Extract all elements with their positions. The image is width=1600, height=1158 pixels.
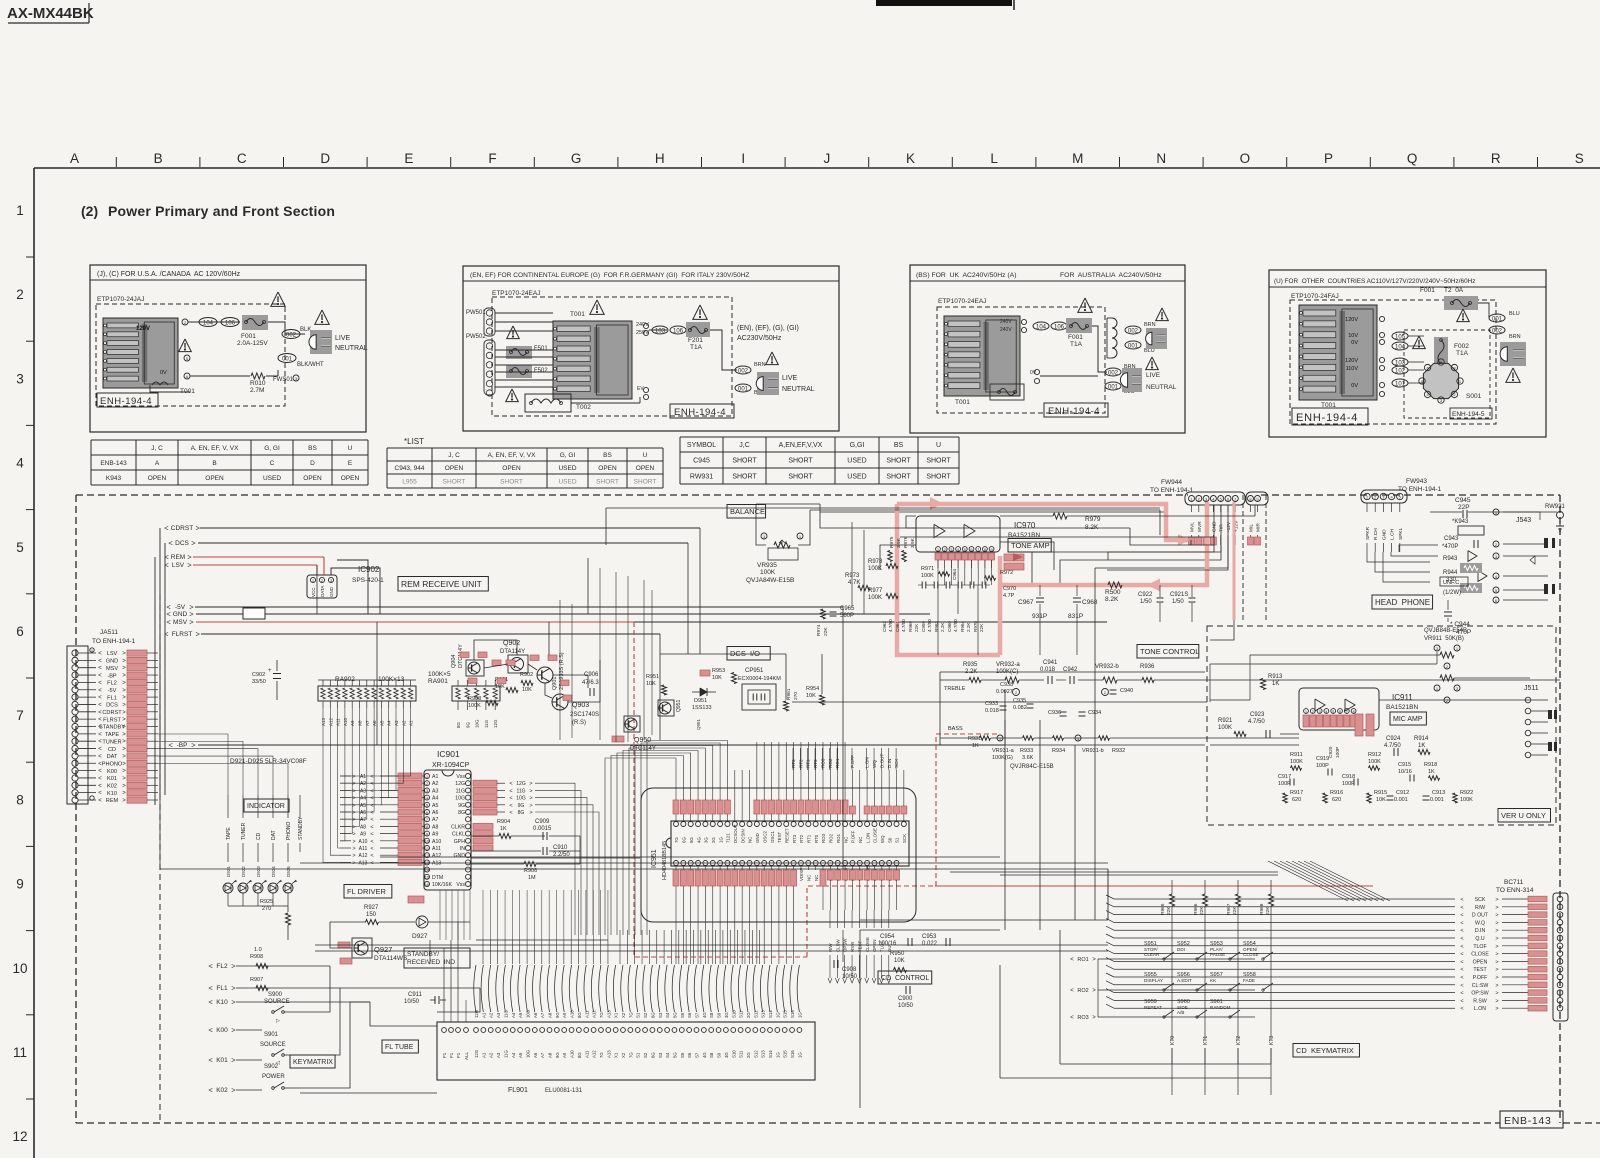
svg-text:S2: S2	[643, 1012, 648, 1018]
svg-text:7G: 7G	[599, 1052, 604, 1058]
IC951 bottom pin OPEN	[872, 861, 877, 866]
svg-text:IN: IN	[460, 846, 465, 852]
svg-text:<: <	[509, 788, 512, 794]
wires RA902 to IC901 staircase	[340, 728, 411, 776]
svg-text:PAUSE: PAUSE	[1210, 952, 1225, 957]
svg-text:<: <	[98, 673, 102, 679]
FL901 tube connector box	[437, 1022, 815, 1080]
svg-text:VER U ONLY: VER U ONLY	[1501, 811, 1546, 820]
svg-text:D.IN: D.IN	[887, 759, 892, 768]
IC951 top pin RO3	[821, 822, 826, 827]
JA511 pin PHONO	[72, 760, 78, 766]
svg-text:A8: A8	[548, 1012, 553, 1018]
FL901 pin S4	[665, 1028, 670, 1033]
wires cd control	[860, 929, 1000, 931]
svg-text:1: 1	[799, 534, 802, 539]
svg-text:0.0027: 0.0027	[996, 689, 1013, 695]
svg-text:AX-MX44BK: AX-MX44BK	[7, 5, 94, 22]
svg-text:R971: R971	[921, 566, 934, 572]
svg-text:D: D	[310, 460, 315, 467]
svg-text:>: >	[352, 839, 355, 845]
IC951 bottom pin S1	[681, 861, 686, 866]
FL901 pin X2	[621, 1028, 626, 1033]
power section box J C for USA/Canada	[90, 265, 366, 432]
svg-text:FL901: FL901	[508, 1087, 528, 1094]
svg-text:IC901: IC901	[437, 749, 460, 759]
svg-text:R975: R975	[889, 536, 895, 548]
wires from keymatrix area to FL901	[437, 988, 480, 1012]
svg-text:831P: 831P	[1068, 613, 1083, 620]
svg-text:R917: R917	[1290, 790, 1303, 796]
IC951 top pin 1G	[718, 822, 723, 827]
connector oval 106 europe	[670, 326, 686, 334]
svg-text:S001: S001	[1466, 393, 1482, 400]
wire from tone to right	[1205, 679, 1560, 681]
svg-text:TO ENH-194-1: TO ENH-194-1	[1398, 486, 1442, 493]
connector oval 002 UK plug top	[1125, 326, 1141, 334]
wire LSV red	[193, 564, 317, 566]
svg-text:K00: K00	[216, 1027, 228, 1034]
IC951 top pin RO2	[828, 822, 833, 827]
svg-text:<: <	[98, 732, 102, 738]
svg-text:QVJA84W-E15B: QVJA84W-E15B	[746, 577, 794, 584]
svg-text:>: >	[122, 725, 126, 731]
svg-text:>: >	[352, 853, 355, 859]
fuse F001	[242, 315, 268, 330]
svg-text:A/B: A/B	[1177, 1010, 1184, 1015]
svg-text:GND: GND	[329, 586, 334, 597]
svg-text:>: >	[187, 561, 192, 570]
FL901 pin A7	[540, 1028, 545, 1033]
FL901 pin 9G	[554, 1028, 559, 1033]
svg-text:<: <	[1460, 936, 1463, 942]
svg-text:100P: 100P	[1335, 747, 1341, 758]
svg-text:O: O	[1240, 151, 1251, 166]
svg-text:22K: 22K	[823, 627, 829, 636]
svg-text:FL2: FL2	[107, 681, 117, 687]
pink cells transistor cluster	[460, 652, 469, 658]
svg-text:<: <	[208, 962, 213, 971]
svg-text:>: >	[1495, 983, 1498, 989]
svg-text:ALL: ALL	[464, 1051, 469, 1060]
svg-text:2.0A-125V: 2.0A-125V	[237, 340, 268, 347]
svg-text:MSV: MSV	[106, 666, 118, 672]
svg-text:4.7/50: 4.7/50	[888, 619, 893, 632]
svg-text:9G: 9G	[518, 803, 525, 809]
svg-text:A8: A8	[360, 824, 366, 830]
svg-text:A6: A6	[533, 1012, 538, 1018]
svg-text:TLOF: TLOF	[1473, 944, 1486, 950]
svg-text:TIR: TIR	[1219, 524, 1225, 532]
svg-text:DTA114WS: DTA114WS	[374, 955, 408, 962]
svg-text:1: 1	[1366, 494, 1369, 499]
svg-text:0V: 0V	[1030, 370, 1037, 376]
svg-text:T2 0A: T2 0A	[1444, 287, 1464, 294]
wire left bus verticals	[159, 528, 161, 800]
svg-text:DTC114Y: DTC114Y	[630, 746, 656, 752]
FL901 pin A3	[496, 1028, 501, 1033]
wire 120V to fuse	[188, 321, 240, 323]
wire REM red	[193, 556, 324, 558]
svg-text:TEST: TEST	[1473, 967, 1487, 973]
svg-text:1SS133: 1SS133	[692, 705, 712, 711]
svg-text:<: <	[370, 839, 373, 845]
svg-text:S4: S4	[665, 1052, 670, 1058]
circled pins headphone	[1493, 509, 1499, 515]
svg-text:<: <	[98, 688, 102, 694]
svg-text:1K: 1K	[972, 743, 979, 749]
svg-text:E: E	[348, 460, 353, 467]
JA511 pin FLRST	[72, 716, 78, 722]
fuse inside T001 UK	[990, 384, 1024, 400]
svg-text:0.001: 0.001	[1430, 797, 1444, 803]
svg-text:DTM: DTM	[432, 875, 443, 881]
svg-text:RSW: RSW	[850, 941, 855, 952]
svg-text:A2: A2	[432, 781, 438, 787]
svg-text:ENB-143: ENB-143	[100, 460, 127, 467]
svg-text:>: >	[352, 774, 355, 780]
svg-text:1: 1	[1456, 646, 1459, 651]
pink cells right of IC970	[1004, 554, 1024, 561]
pink tall cells IC911	[1355, 714, 1363, 736]
svg-text:FLRST: FLRST	[172, 631, 193, 638]
transformer T002	[525, 394, 571, 412]
svg-text:S6: S6	[687, 1012, 692, 1018]
svg-text:S5: S5	[680, 1012, 685, 1018]
wire CDRST vertical	[587, 558, 589, 614]
svg-text:IC902: IC902	[358, 565, 380, 574]
svg-text:C964: C964	[952, 569, 957, 580]
svg-text:A9: A9	[360, 832, 366, 838]
resistor R979 8.2K	[1053, 513, 1067, 519]
svg-text:<: <	[509, 796, 512, 802]
svg-text:<: <	[370, 810, 373, 816]
svg-text:PW502: PW502	[466, 334, 486, 340]
svg-text:5: 5	[1399, 494, 1402, 499]
svg-text:KT1: KT1	[1203, 1036, 1209, 1045]
svg-text:11G: 11G	[503, 1050, 508, 1058]
wires RA902 pins down	[322, 708, 324, 728]
svg-text:SHORT: SHORT	[886, 473, 911, 480]
wire indicator common	[228, 905, 288, 907]
IC951 top pin NC	[857, 822, 862, 827]
svg-text:2: 2	[1104, 690, 1107, 695]
IC901 pin 11G right	[466, 788, 471, 793]
svg-text:A5: A5	[432, 803, 438, 809]
FL901 pin S6	[687, 1028, 692, 1033]
svg-text:INDICATOR: INDICATOR	[247, 803, 285, 810]
svg-text:S901: S901	[264, 1032, 279, 1038]
svg-text:>: >	[122, 651, 126, 657]
svg-text:A11: A11	[432, 846, 441, 852]
svg-text:S1: S1	[895, 837, 900, 843]
svg-text:>: >	[122, 702, 126, 708]
FL901 pin A5	[518, 1028, 523, 1033]
board code label ENH-194-4	[97, 393, 158, 407]
svg-text:10/16: 10/16	[1398, 769, 1412, 775]
transformer T001 block	[103, 318, 178, 388]
svg-text:F1: F1	[442, 1052, 447, 1058]
IC951 top pin 3G	[703, 822, 708, 827]
svg-text:>: >	[1092, 1015, 1096, 1021]
svg-text:>: >	[352, 817, 355, 823]
svg-text:A, EN, EF, V, VX: A, EN, EF, V, VX	[488, 452, 536, 459]
FL901 pin A6	[532, 1028, 537, 1033]
svg-text:0V: 0V	[1351, 340, 1358, 346]
FW944 signal -12V	[1227, 505, 1229, 512]
svg-text:120V: 120V	[1345, 317, 1358, 323]
connector oval 104	[199, 318, 217, 327]
svg-text:R931: R931	[968, 736, 981, 742]
svg-text:M: M	[1072, 151, 1083, 166]
wires keymatrix bottom bus	[859, 930, 861, 1108]
wires ver u only	[1210, 744, 1299, 746]
svg-text:<: <	[370, 774, 373, 780]
svg-text:GND: GND	[755, 833, 760, 843]
svg-text:5: 5	[16, 540, 24, 555]
IC951 bottom pin OPSW	[843, 861, 848, 866]
svg-text:S3: S3	[658, 1012, 663, 1018]
svg-text:L.ON: L.ON	[1474, 1006, 1486, 1012]
svg-text:931P: 931P	[1032, 613, 1047, 620]
svg-text:ENH-194-4: ENH-194-4	[674, 407, 726, 418]
connector oval 103	[652, 326, 668, 334]
svg-text:F502: F502	[534, 368, 548, 374]
svg-text:<: <	[98, 776, 102, 782]
svg-text:TEST: TEST	[777, 831, 782, 843]
svg-text:A,EN,EF,V,VX: A,EN,EF,V,VX	[779, 442, 823, 449]
IC951 top pin 4G	[696, 822, 701, 827]
wires IC970 pins down	[937, 560, 939, 585]
svg-text:>: >	[352, 810, 355, 816]
IC901 pin 10G right	[466, 795, 471, 800]
red dashed vertical right of IC951	[936, 734, 1000, 886]
svg-text:<: <	[370, 803, 373, 809]
svg-text:R922: R922	[1460, 790, 1473, 796]
svg-text:CLKL: CLKL	[452, 832, 465, 838]
svg-text:<: <	[98, 769, 102, 775]
svg-text:DCS: DCS	[106, 703, 118, 709]
JA511 pin K00	[72, 768, 78, 774]
svg-text:S15: S15	[783, 1050, 788, 1058]
svg-text:C911: C911	[408, 992, 423, 998]
svg-text:2SC1740S: 2SC1740S	[570, 712, 599, 718]
svg-text:4.7/50: 4.7/50	[901, 619, 906, 632]
BC711 signal R.SW	[1114, 999, 1455, 1001]
svg-text:LIVE: LIVE	[1146, 372, 1161, 379]
svg-text:K: K	[906, 151, 915, 166]
IC951 top pin L.ON	[865, 822, 870, 827]
svg-text:C924: C924	[1386, 736, 1401, 742]
svg-text:>: >	[1495, 913, 1498, 919]
svg-text:S4: S4	[665, 1012, 670, 1018]
FL901 pin 10G	[525, 1028, 530, 1033]
svg-text:(2): (2)	[81, 203, 98, 219]
FL901 pin S13	[760, 1028, 765, 1033]
svg-text:10G: 10G	[525, 1009, 530, 1018]
svg-text:CL:SW: CL:SW	[1472, 983, 1489, 989]
svg-text:Power Primary and Front Sectio: Power Primary and Front Section	[108, 203, 335, 219]
svg-text:8.2K: 8.2K	[1085, 524, 1099, 531]
svg-text:SHORT: SHORT	[443, 478, 466, 485]
svg-text:620: 620	[1332, 797, 1341, 803]
svg-text:Q951: Q951	[696, 718, 701, 730]
svg-text:>: >	[122, 739, 126, 745]
svg-text:A4: A4	[432, 796, 438, 802]
svg-text:ETP1070-24JAJ: ETP1070-24JAJ	[97, 296, 144, 303]
svg-text:S12: S12	[753, 1050, 758, 1058]
wires IC901 to FL bus	[429, 940, 431, 964]
svg-text:<: <	[208, 1056, 213, 1065]
svg-text:7G: 7G	[674, 837, 679, 843]
BC711 signal R/W	[1114, 906, 1455, 908]
svg-text:0.0015: 0.0015	[533, 826, 552, 832]
svg-text:F501: F501	[534, 346, 548, 352]
wires keymatrix to right	[284, 966, 330, 1012]
svg-text:LIVE: LIVE	[335, 335, 351, 342]
diagonal bus bundle to BC711	[1268, 861, 1348, 901]
svg-text:S3: S3	[658, 1052, 663, 1058]
svg-text:A8: A8	[358, 720, 363, 726]
IC901 pin 23 right	[466, 817, 471, 822]
svg-text:1G: 1G	[797, 1052, 802, 1058]
JA511 pin TUNER	[72, 738, 78, 744]
warning triangle F001 other	[1457, 309, 1470, 322]
svg-text:8G: 8G	[456, 721, 461, 728]
IC970 pin 6	[969, 547, 974, 552]
wire REM to IC902 data red	[323, 557, 325, 575]
svg-text:2G: 2G	[711, 837, 716, 843]
svg-text:CD: CD	[256, 832, 262, 840]
svg-text:CLOSE: CLOSE	[1471, 952, 1489, 958]
tone control outline wires	[940, 671, 1205, 673]
svg-text:L.ON: L.ON	[865, 833, 870, 843]
cd keymatrix routing	[1097, 959, 1099, 1017]
svg-text:<: <	[509, 781, 512, 787]
IC951 bottom pin S11	[754, 861, 759, 866]
IC901 pin A1 left	[425, 774, 430, 779]
svg-text:D.OUT: D.OUT	[879, 754, 884, 768]
svg-text:S: S	[1575, 151, 1584, 166]
svg-text:>: >	[191, 741, 196, 750]
svg-text:A7: A7	[540, 1012, 545, 1018]
FW944 signal MIR	[1257, 505, 1259, 512]
svg-text:D922: D922	[241, 866, 246, 877]
svg-text:+: +	[268, 668, 272, 674]
svg-text:>: >	[1092, 957, 1096, 963]
svg-text:SYMBOL: SYMBOL	[687, 442, 716, 449]
svg-text:<: <	[1460, 967, 1463, 973]
svg-text:D.IN: D.IN	[1475, 928, 1486, 934]
svg-text:6: 6	[1227, 496, 1230, 501]
svg-text:240V: 240V	[636, 322, 649, 328]
label box FL DRIVER	[344, 885, 392, 899]
svg-text:S5: S5	[680, 1052, 685, 1058]
svg-text:A8: A8	[548, 1052, 553, 1058]
svg-text:TAPE: TAPE	[105, 732, 119, 738]
svg-text:R977: R977	[868, 588, 883, 594]
svg-text:1: 1	[1190, 496, 1193, 501]
FW944 signal MVL	[1191, 505, 1193, 512]
svg-text:VR932-b: VR932-b	[1095, 664, 1119, 670]
svg-text:>: >	[1495, 897, 1498, 903]
transistor Q950 DTC114Y	[624, 716, 640, 732]
svg-text:3: 3	[295, 376, 298, 381]
svg-text:C961: C961	[895, 621, 900, 632]
FW944 pink pin cell	[1189, 537, 1195, 545]
wire to fuse F201	[649, 329, 667, 331]
svg-text:R950: R950	[890, 951, 905, 957]
FL901 pin A11	[584, 1028, 589, 1033]
svg-text:A.EDIT: A.EDIT	[1177, 978, 1192, 983]
wire fan IC951 bottom right group	[829, 955, 831, 978]
svg-text:>: >	[122, 695, 126, 701]
svg-text:K01: K01	[216, 1057, 228, 1064]
svg-text:A: A	[155, 460, 160, 467]
svg-text:<: <	[208, 998, 213, 1007]
svg-text:DATA: DATA	[320, 586, 325, 597]
svg-text:R.CH: R.CH	[1373, 528, 1379, 540]
svg-text:>: >	[352, 803, 355, 809]
BC711 signal OP:SW	[1114, 992, 1455, 994]
svg-text:T002: T002	[576, 404, 591, 411]
svg-text:3.6K: 3.6K	[1022, 755, 1034, 761]
JA511 pin K10	[72, 790, 78, 796]
connector oval 002 other	[1489, 326, 1505, 334]
svg-text:DCS: DCS	[175, 540, 189, 547]
svg-text:>: >	[1495, 944, 1498, 950]
FL901 pin 8G	[577, 1028, 582, 1033]
svg-text:SOURCE: SOURCE	[264, 999, 290, 1005]
svg-text:7G: 7G	[599, 1012, 604, 1018]
svg-text:12: 12	[12, 1129, 27, 1144]
svg-text:12G: 12G	[474, 1049, 479, 1058]
svg-text:R970: R970	[973, 621, 978, 632]
AC plug live neutral	[310, 330, 332, 354]
svg-text:S2: S2	[643, 1052, 648, 1058]
svg-text:1G: 1G	[718, 837, 723, 843]
svg-text:4.7/50: 4.7/50	[1384, 743, 1401, 749]
svg-text:R904: R904	[497, 819, 510, 825]
IC901 pin 31 right	[466, 874, 471, 879]
svg-text:2: 2	[1015, 690, 1018, 695]
IC901 pin A4 left	[425, 795, 430, 800]
wires PW to T001	[495, 312, 553, 314]
IC951 top pin TEST	[776, 822, 781, 827]
svg-text:C942: C942	[1063, 667, 1078, 673]
svg-text:0.082: 0.082	[1013, 705, 1027, 711]
svg-text:C922: C922	[1138, 592, 1153, 598]
svg-text:C912: C912	[1396, 790, 1409, 796]
warning triangle above plug europe	[766, 352, 779, 365]
svg-text:>: >	[529, 781, 532, 787]
svg-text:*LIST: *LIST	[404, 437, 424, 446]
svg-text:IC951: IC951	[651, 849, 658, 868]
svg-text:BRN: BRN	[1509, 334, 1521, 340]
svg-text:S11: S11	[739, 1010, 744, 1018]
svg-text:NC: NC	[858, 837, 863, 843]
FW944 pink pin cell	[1210, 537, 1216, 545]
svg-text:F001: F001	[241, 333, 256, 340]
coil winding symbol	[1112, 318, 1117, 358]
JA511 pin K02	[72, 782, 78, 788]
svg-text:1G: 1G	[797, 1012, 802, 1018]
svg-text:2: 2	[184, 320, 187, 325]
svg-text:K00: K00	[107, 769, 117, 775]
svg-text:CD: CD	[108, 747, 116, 753]
IC901 pin 29 right	[466, 860, 471, 865]
JA511 pin STANDBY	[72, 723, 78, 729]
